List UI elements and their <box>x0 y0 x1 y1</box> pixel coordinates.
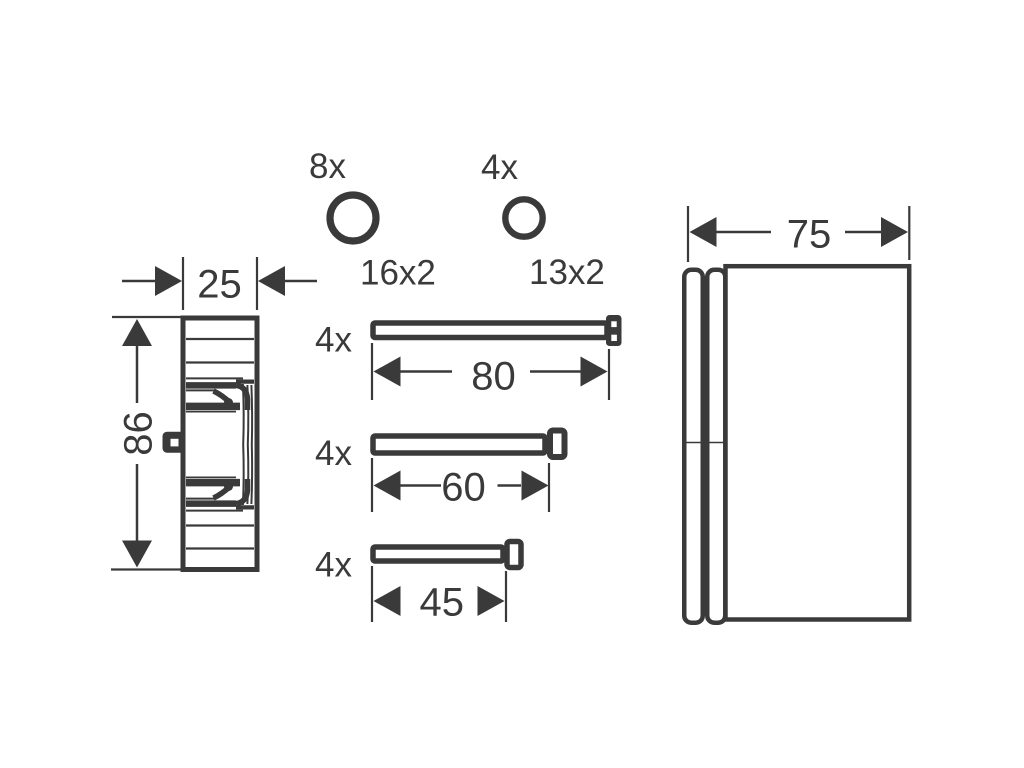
left view horizontal rib lines bottom <box>186 526 254 549</box>
dimension 86: down arrow <box>122 541 152 568</box>
dimension 25: extension lines <box>183 257 257 310</box>
washer circle 16x2 <box>330 195 376 241</box>
svg-text:4x: 4x <box>481 148 518 187</box>
screw 3 shaft (45mm) <box>373 547 503 561</box>
left view horizontal rib lines top <box>186 339 254 363</box>
glass panel folded edge bar 1 <box>684 270 703 623</box>
washer circle 13x2 <box>505 199 542 236</box>
dimension 75: extension lines <box>688 206 909 262</box>
glass panel main plate <box>726 266 910 619</box>
dimension 45: arrows <box>374 586 401 616</box>
left view profile cross-section (top half, mirrored below) <box>186 378 254 444</box>
svg-text:4x: 4x <box>315 321 352 360</box>
svg-text:60: 60 <box>441 465 486 509</box>
left view: mounting bar outline <box>183 318 257 570</box>
dimension 25: right arrow + tail <box>258 266 285 296</box>
glass panel seam line <box>682 442 728 444</box>
svg-text:75: 75 <box>787 213 832 257</box>
dimension 80: extension lines <box>372 343 609 400</box>
screw 2 head <box>550 431 565 458</box>
dimension 75: arrows and line <box>690 217 717 247</box>
svg-text:8x: 8x <box>309 147 346 186</box>
dimension 60: arrows and line <box>374 471 401 501</box>
svg-text:16x2: 16x2 <box>360 254 436 293</box>
glass panel folded edge bar 2 <box>707 270 725 623</box>
svg-text:4x: 4x <box>315 546 352 585</box>
dimension 45: extension lines <box>372 566 506 622</box>
screw 1 shaft (80mm) <box>373 323 607 338</box>
screw 3 head <box>507 542 521 568</box>
screw 1 head <box>606 315 622 346</box>
dimension 86: extension lines <box>111 317 181 570</box>
svg-text:86: 86 <box>117 411 161 456</box>
dimension 25: left tail + arrow <box>122 280 157 283</box>
dimension 86: up arrow <box>122 319 152 346</box>
svg-text:25: 25 <box>197 263 242 307</box>
left view small clip tab <box>163 432 182 453</box>
svg-text:4x: 4x <box>315 434 352 473</box>
screw 2 shaft (60mm) <box>373 436 545 453</box>
svg-text:13x2: 13x2 <box>529 253 605 292</box>
dimension 80: arrows and line <box>374 357 401 387</box>
svg-text:45: 45 <box>420 581 465 625</box>
dimension 60: extension lines <box>372 458 549 512</box>
svg-text:80: 80 <box>471 355 516 399</box>
